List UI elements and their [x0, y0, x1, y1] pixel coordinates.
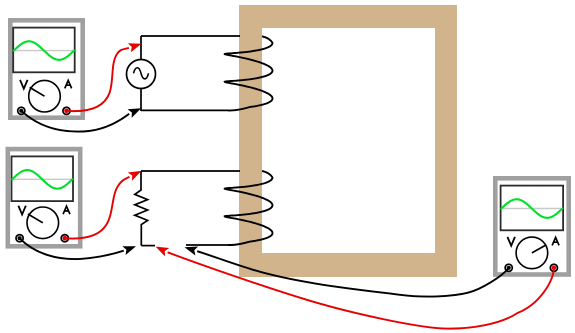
primary winding (3 turns) — [225, 36, 273, 110]
multimeter M1 (primary voltmeter) screen — [13, 28, 74, 73]
arrowhead: M3 black lead at secondary winding lead end — [185, 247, 199, 256]
AC source V1 — [127, 60, 156, 89]
test lead M2 red to resistor top node — [65, 177, 130, 239]
test lead M1 black to primary bottom node — [21, 111, 129, 132]
multimeter M2 (secondary voltmeter) red terminal — [61, 235, 68, 242]
iron core — [239, 5, 457, 277]
wire resistor bottom stub — [141, 245, 155, 247]
multimeter M1 (primary voltmeter) dial — [29, 80, 61, 112]
multimeter M1 (primary voltmeter) body frame — [10, 20, 82, 117]
multimeter M3 (ammeter) screen midline — [502, 208, 562, 210]
multimeter M2 (secondary voltmeter) label V — [19, 207, 26, 215]
multimeter M3 (ammeter) body frame — [495, 178, 568, 274]
multimeter M1 (primary voltmeter) waveform trace — [14, 41, 74, 60]
arrowhead: M1 red lead at primary top node — [128, 43, 142, 52]
test lead M3 black to secondary winding lead — [197, 251, 509, 296]
multimeter M3 (ammeter) waveform trace — [501, 199, 562, 218]
multimeter M1 (primary voltmeter) red terminal — [63, 107, 70, 114]
multimeter M3 (ammeter) label A — [553, 237, 559, 244]
multimeter M1 (primary voltmeter) screen midline — [14, 50, 73, 52]
resistor R (load) — [135, 171, 148, 246]
multimeter M2 (secondary voltmeter) waveform trace — [12, 170, 72, 189]
arrowhead: M3 red lead at resistor bottom stub end — [156, 247, 170, 257]
wire primary bottom — [141, 109, 231, 111]
test lead M2 black to resistor bottom node — [20, 238, 124, 259]
test lead M1 red to primary top node — [67, 48, 129, 111]
multimeter M2 (secondary voltmeter) dial — [27, 207, 59, 239]
multimeter M2 (secondary voltmeter) body frame — [8, 149, 80, 246]
multimeter M3 (ammeter) red terminal — [550, 264, 557, 271]
multimeter M1 (primary voltmeter) needle — [30, 87, 45, 96]
multimeter M3 (ammeter) label V — [508, 238, 515, 246]
wire primary left lower segment — [140, 89, 142, 112]
multimeter M3 (ammeter) needle — [532, 245, 547, 253]
multimeter M2 (secondary voltmeter) needle — [28, 214, 43, 223]
multimeter M3 (ammeter) dial — [516, 237, 548, 269]
wire secondary top (winding to resistor) — [141, 170, 240, 172]
multimeter M3 (ammeter) screen — [501, 186, 563, 231]
arrowhead: M2 red lead at resistor top node — [128, 171, 142, 181]
arrowhead: M2 black lead at resistor bottom node — [122, 246, 136, 255]
wire primary left upper segment — [140, 36, 142, 60]
multimeter M2 (secondary voltmeter) screen midline — [13, 178, 73, 180]
multimeter M2 (secondary voltmeter) label A — [63, 206, 69, 213]
test lead M3 red to resistor bottom stub — [168, 252, 554, 328]
wire secondary bottom (winding lead, open end) — [186, 244, 231, 246]
wire primary top (source to winding) — [141, 35, 240, 37]
arrowhead: M1 black lead at primary bottom node — [128, 108, 142, 118]
multimeter M2 (secondary voltmeter) screen — [12, 156, 74, 201]
multimeter M3 (ammeter) black terminal — [505, 264, 512, 271]
multimeter M1 (primary voltmeter) label V — [20, 81, 27, 89]
secondary winding (3 turns) — [225, 171, 273, 245]
multimeter M1 (primary voltmeter) label A — [65, 80, 71, 87]
multimeter M2 (secondary voltmeter) black terminal — [16, 235, 23, 242]
multimeter M1 (primary voltmeter) black terminal — [18, 107, 25, 114]
